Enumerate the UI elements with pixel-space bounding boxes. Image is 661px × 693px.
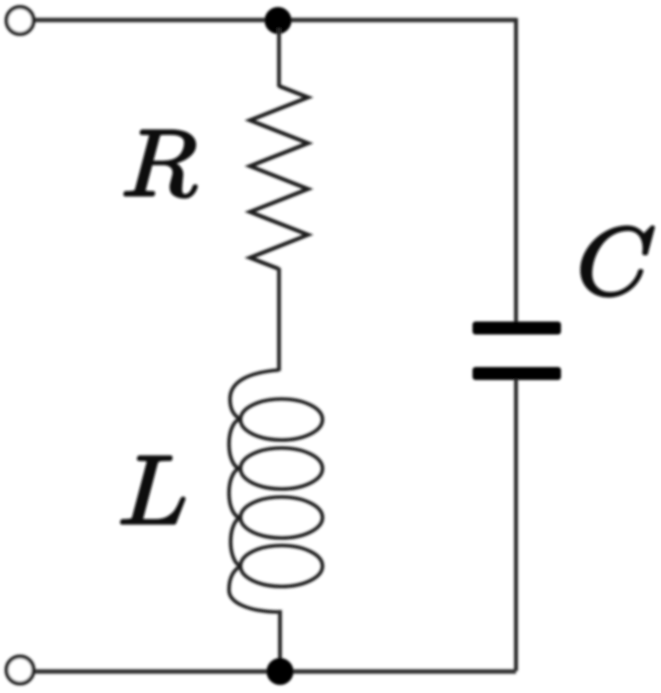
label L	[121, 457, 184, 524]
inductor left arc 2	[229, 469, 241, 518]
inductor left arc 1	[229, 420, 241, 469]
wire bottom horizontal	[33, 669, 516, 674]
wire between resistor and inductor	[277, 268, 281, 371]
inductor loop 2	[241, 448, 323, 489]
resistor R	[250, 86, 308, 269]
inductor coil bottom arc	[229, 566, 280, 612]
wire right vertical upper	[514, 18, 518, 323]
wire from top node down to resistor	[277, 28, 281, 87]
terminal top-left	[7, 7, 34, 34]
capacitor C top plate	[473, 322, 562, 335]
label C	[581, 227, 653, 297]
label R	[124, 131, 196, 198]
terminal bottom-left	[7, 657, 34, 684]
wire top horizontal	[33, 18, 516, 23]
wire from inductor to bottom node	[278, 610, 282, 665]
wire right vertical lower	[514, 379, 518, 671]
node junction top	[265, 7, 292, 34]
inductor loop 1	[241, 399, 323, 440]
capacitor C bottom plate	[473, 367, 562, 380]
inductor L coil top arc	[230, 370, 279, 420]
inductor left arc 3	[231, 518, 241, 567]
inductor loop 3	[241, 497, 323, 538]
inductor loop 4	[241, 546, 323, 587]
node junction bottom	[267, 658, 294, 685]
